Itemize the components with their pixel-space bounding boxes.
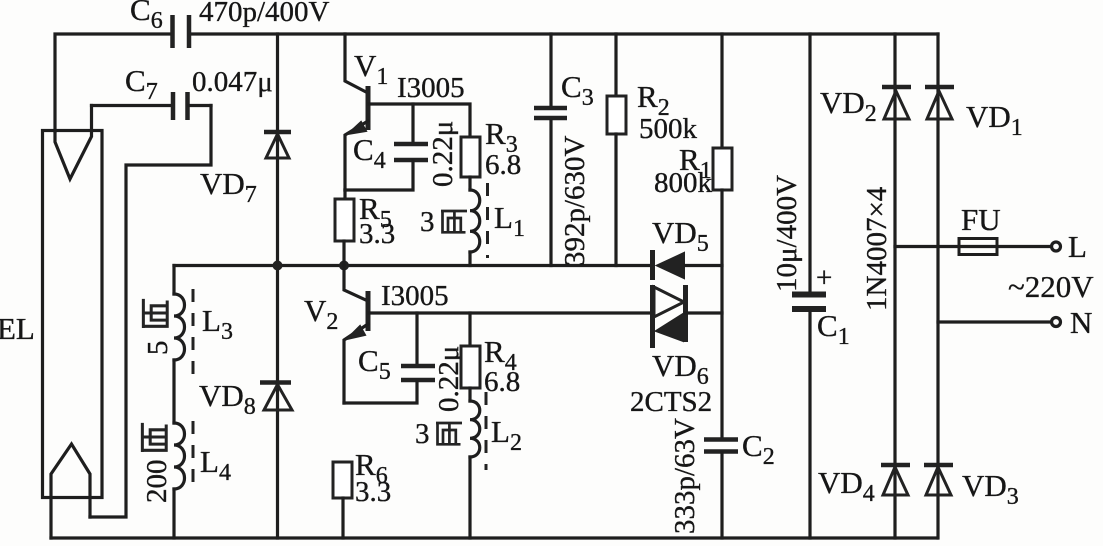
svg-text:3.3: 3.3 [359,218,395,250]
diode VD4 [881,463,910,468]
svg-text:200: 200 [141,460,173,504]
svg-text:392p/630V: 392p/630V [559,135,591,266]
svg-text:L2: L2 [491,414,522,456]
svg-text:I3005: I3005 [397,72,465,104]
resistor R4 [468,313,471,346]
svg-text:10μ/400V: 10μ/400V [771,175,803,292]
svg-text:V1: V1 [354,48,388,90]
svg-text:C5: C5 [358,343,391,385]
svg-text:3: 3 [420,206,435,238]
diac VD6 [650,285,655,348]
diode VD5 [650,250,655,280]
capacitor C1 electrolytic [808,34,811,292]
svg-text:VD8: VD8 [199,378,256,420]
capacitor C3 [549,34,552,106]
svg-text:C4: C4 [353,132,386,174]
svg-text:6.8: 6.8 [485,149,521,181]
resistor R1 [720,34,723,148]
capacitor C2 [704,437,738,442]
diode VD7 [276,34,279,265]
node mid bus [174,264,652,267]
diode VD8 [276,266,279,538]
svg-text:3: 3 [415,418,430,450]
svg-text:C2: C2 [742,428,775,470]
transistor V2 emitter arrow [347,326,365,339]
svg-text:VD3: VD3 [962,468,1019,510]
svg-text:333p/63V: 333p/63V [669,418,701,534]
transistor V1 emitter arrow [348,122,366,134]
resistor R6 [333,462,352,498]
terminal L [1052,242,1061,251]
wire N [938,320,1052,323]
svg-text:+: + [816,262,832,294]
svg-text:C3: C3 [561,69,594,111]
svg-text:3.3: 3.3 [355,476,391,508]
capacitor C6 [170,15,175,48]
svg-text:L: L [1068,229,1087,264]
wire V2 base to diac [369,311,652,314]
svg-text:EL: EL [0,311,35,346]
junction dot VD7/VD8 [273,261,283,271]
svg-text:5: 5 [142,341,174,356]
lamp EL tube [43,131,103,498]
svg-text:VD4: VD4 [818,465,875,507]
diode VD1 [936,34,939,538]
svg-text:0.22μ: 0.22μ [427,121,459,187]
capacitor C5 [415,313,418,365]
svg-text:VD7: VD7 [200,166,257,208]
svg-text:0.047μ: 0.047μ [192,66,273,98]
wire bottom bus [51,536,937,539]
svg-text:500k: 500k [639,113,698,145]
transistor V1 [345,34,368,93]
svg-text:1N4007×4: 1N4007×4 [861,186,893,311]
svg-text:I3005: I3005 [381,280,449,312]
svg-text:~220V: ~220V [1008,269,1094,304]
capacitor C7 [92,104,171,107]
svg-text:V2: V2 [304,293,338,335]
resistor R5 [343,190,346,199]
svg-text:VD5: VD5 [652,215,709,257]
svg-text:470p/400V: 470p/400V [199,0,330,28]
wire lamp bottom-right pin to C7 loop [90,106,211,518]
svg-text:C7: C7 [125,63,158,105]
diode VD3 [924,463,953,468]
label 5 turns (rotated) [142,299,174,355]
capacitor C4 [411,104,414,143]
svg-text:FU: FU [961,202,1001,237]
svg-text:N: N [1070,305,1092,340]
svg-text:L3: L3 [202,303,233,345]
inductor L1 [468,177,471,190]
svg-text:2CTS2: 2CTS2 [630,386,712,418]
svg-text:C1: C1 [817,308,850,350]
wire top bus [190,32,938,35]
diode VD2 [893,34,896,538]
svg-text:L4: L4 [200,444,231,486]
wire V1 base [369,104,470,137]
svg-text:C6: C6 [130,0,163,34]
svg-text:VD6: VD6 [652,348,709,390]
junction dot V1 emitter / V2 collector [339,261,349,271]
inductor L2 [468,388,471,401]
fuse FU [895,245,1052,248]
svg-text:L1: L1 [494,200,525,242]
label 200 turns (rotated) [141,423,173,503]
wire C6 left segment [55,34,171,131]
resistor R3 [461,137,480,177]
svg-text:6.8: 6.8 [484,366,520,398]
svg-text:800k: 800k [654,167,713,199]
svg-text:VD2: VD2 [820,85,877,127]
lamp bottom filament [51,444,90,538]
transistor V2 [344,266,368,301]
lamp top filament [55,106,92,180]
terminal N [1052,318,1061,327]
inductor L4 [174,423,185,489]
resistor R2 [614,34,617,96]
inductor L3 [172,266,175,295]
svg-text:VD1: VD1 [966,99,1023,141]
